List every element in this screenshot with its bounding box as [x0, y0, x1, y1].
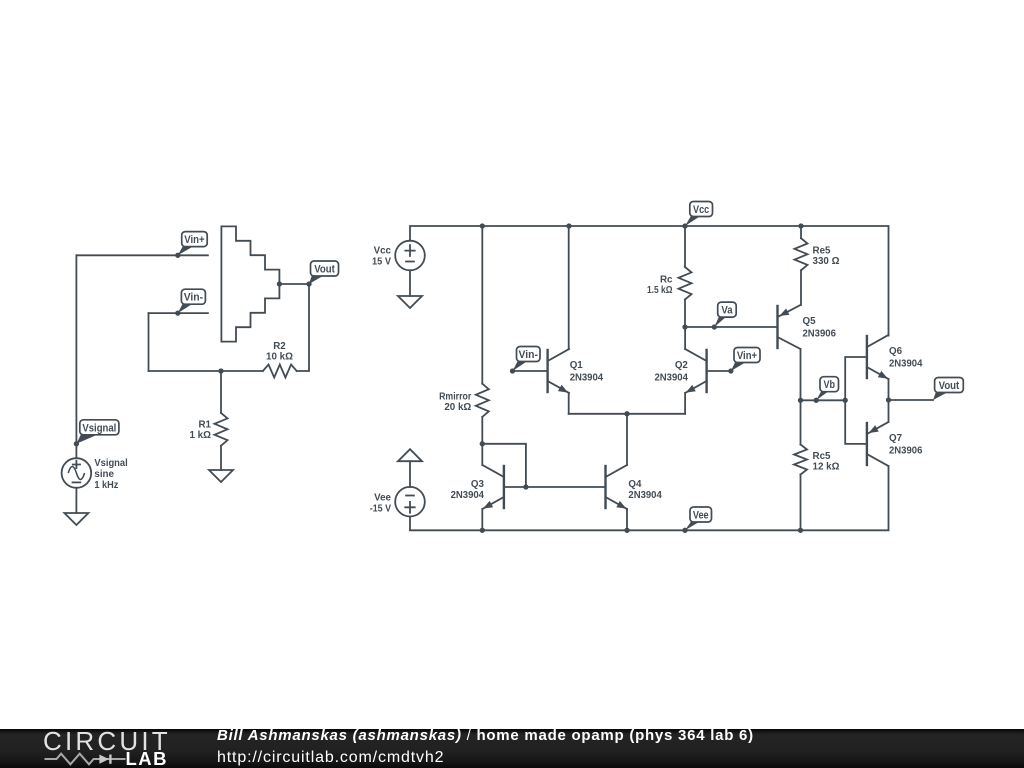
wire mirror diode link — [482, 444, 526, 487]
wire Vcc source to ground — [409, 270, 411, 296]
svg-text:20 kΩ: 20 kΩ — [444, 402, 471, 413]
svg-text:R2: R2 — [273, 341, 286, 352]
voltage source Vcc — [395, 241, 425, 271]
wire Va net — [685, 326, 778, 328]
svg-text:2N3906: 2N3906 — [803, 328, 837, 339]
svg-text:Q6: Q6 — [889, 346, 903, 357]
transistor Q3 — [503, 465, 505, 509]
svg-text:330 Ω: 330 Ω — [813, 256, 840, 267]
svg-text:1 kHz: 1 kHz — [94, 480, 118, 491]
node Vsignal tap — [74, 441, 79, 446]
node mirror base link — [523, 484, 528, 489]
flag Vb — [816, 377, 838, 401]
wire Re5 top — [800, 226, 802, 238]
wire Q2 base stub — [707, 370, 731, 372]
flag Vin- (right) — [513, 347, 541, 372]
wire Vsignal source bottom — [75, 488, 77, 513]
svg-text:Vout: Vout — [314, 264, 335, 276]
node mirror junction — [480, 441, 485, 446]
wire Rc top — [684, 226, 686, 267]
node top rail / Q1 collector — [566, 223, 571, 228]
wire Vin+ input net — [76, 254, 208, 256]
svg-text:2N3904: 2N3904 — [570, 372, 604, 383]
node tail current junction — [624, 411, 629, 416]
svg-text:Q5: Q5 — [803, 316, 817, 327]
svg-text:Q1: Q1 — [570, 360, 584, 371]
url line — [217, 749, 444, 767]
svg-text:1.5 kΩ: 1.5 kΩ — [647, 285, 673, 296]
flag Vin- — [178, 289, 206, 313]
wire R1 bottom — [220, 446, 222, 470]
footer bar — [0, 729, 1024, 768]
wire Q3-Q4 base net — [504, 486, 606, 488]
node Vee flag tap — [682, 528, 687, 533]
svg-text:R1: R1 — [198, 419, 211, 430]
svg-text:2N3906: 2N3906 — [889, 445, 923, 456]
transistor Q7 — [866, 422, 868, 466]
svg-text:sine: sine — [94, 469, 114, 480]
svg-text:Rc: Rc — [660, 274, 673, 285]
wire Vout net — [889, 399, 934, 401]
resistor Rmirror — [476, 384, 489, 417]
resistor Rc5 — [794, 445, 807, 475]
voltage source Vee — [395, 487, 425, 517]
node output junction — [886, 397, 891, 402]
svg-text:Va: Va — [721, 305, 733, 317]
resistor R1 — [215, 413, 228, 446]
svg-text:1 kΩ: 1 kΩ — [190, 430, 212, 441]
node Q3 emitter / rail — [480, 528, 485, 533]
ground below R1 — [209, 470, 233, 482]
node top rail / Rc / Vcc flag — [682, 223, 687, 228]
wire op-amp output — [279, 283, 309, 285]
svg-text:Vin+: Vin+ — [737, 350, 757, 362]
transistor Q5 — [776, 305, 778, 349]
svg-text:Q4: Q4 — [628, 479, 642, 490]
svg-text:Vin-: Vin- — [519, 349, 539, 361]
svg-text:Vee: Vee — [693, 510, 709, 522]
node Vin+ tap (right) — [728, 368, 733, 373]
wire Re5 bottom — [800, 270, 802, 305]
svg-text:12 kΩ: 12 kΩ — [813, 462, 840, 473]
wire feedback left vertical — [148, 313, 150, 371]
node Vin- tap (right) — [510, 368, 515, 373]
flag Vout — [309, 261, 339, 284]
resistor Rc — [679, 267, 692, 300]
transistor Q6 — [866, 335, 868, 379]
node Va tap — [712, 324, 717, 329]
svg-text:2N3904: 2N3904 — [889, 358, 923, 369]
node Rc5 / rail — [798, 528, 803, 533]
transistor Q1 — [546, 349, 548, 393]
svg-text:Re5: Re5 — [813, 245, 832, 256]
svg-text:2N3904: 2N3904 — [628, 490, 662, 501]
transistor Q4 — [604, 465, 606, 509]
svg-text:Vsignal: Vsignal — [94, 458, 128, 469]
svg-text:Vout: Vout — [939, 380, 960, 392]
node Q5 collector / Rc5 — [798, 398, 803, 403]
node R1/R2 junction — [218, 368, 223, 373]
wire Rmirror top — [481, 226, 483, 384]
ground below Vsignal — [64, 513, 88, 525]
flag Vee — [685, 507, 712, 530]
wire Vsignal source top — [75, 444, 77, 458]
svg-text:Q2: Q2 — [675, 360, 689, 371]
svg-text:Vin+: Vin+ — [184, 234, 204, 246]
svg-text:Vin-: Vin- — [184, 292, 204, 304]
wire Rc bottom — [684, 300, 686, 328]
wire Rc5 top — [800, 400, 802, 444]
wire common emitter net — [569, 413, 685, 415]
node Vb tap — [814, 398, 819, 403]
svg-text:10 kΩ: 10 kΩ — [266, 352, 293, 363]
wire Vb net — [801, 399, 846, 401]
node top rail / Rmirror — [480, 223, 485, 228]
svg-text:Rmirror: Rmirror — [439, 391, 471, 402]
resistor Re5 — [795, 238, 808, 270]
node Va junction — [682, 324, 687, 329]
wire R1 top — [220, 371, 222, 413]
wire Vee ground stub — [409, 461, 411, 487]
svg-text:2N3904: 2N3904 — [451, 490, 485, 501]
node Vb / base link — [843, 398, 848, 403]
ground arrow above Vee — [398, 449, 422, 461]
voltage source Vsignal — [62, 458, 92, 488]
resistor R2 — [263, 365, 297, 378]
credit line — [217, 728, 754, 744]
flag Vsignal — [76, 420, 119, 444]
svg-text:Q7: Q7 — [889, 433, 903, 444]
wire Vcc top rail — [410, 226, 889, 336]
wire Rmirror bottom — [481, 417, 483, 444]
flag Va — [714, 302, 736, 327]
node Q4 emitter / rail — [624, 528, 629, 533]
svg-text:Vb: Vb — [824, 379, 836, 391]
svg-text:-15 V: -15 V — [370, 504, 392, 515]
wire left vertical (Vsignal to Vin+) — [75, 255, 77, 443]
wire Rc5 bottom — [800, 475, 802, 531]
wire R2 to Vout vertical — [297, 284, 309, 371]
svg-text:Vee: Vee — [374, 493, 391, 504]
transistor Q2 — [705, 349, 707, 393]
wire feedback bottom net — [149, 370, 263, 372]
svg-text:Vcc: Vcc — [374, 246, 392, 257]
node Vin- tap — [175, 310, 180, 315]
flag Vin+ (right) — [731, 348, 760, 372]
node op-amp output — [277, 281, 282, 286]
node Vin+ tap — [175, 253, 180, 258]
flag Vout (right) — [933, 378, 963, 401]
svg-text:Rc5: Rc5 — [813, 451, 832, 462]
svg-text:Vsignal: Vsignal — [82, 422, 116, 434]
wire Q1 base stub — [513, 370, 548, 372]
wire Vin- input net — [149, 312, 208, 314]
CircuitLab logo — [0, 729, 180, 768]
svg-text:2N3904: 2N3904 — [655, 372, 689, 383]
svg-text:Q3: Q3 — [471, 479, 485, 490]
wire Q6-Q7 base link — [845, 357, 867, 444]
flag Vcc — [685, 202, 713, 227]
flag Vin+ — [178, 232, 207, 256]
ground below Vcc — [398, 296, 422, 308]
op-amp X1 (homemade opamp staircase symbol) — [221, 226, 279, 341]
wire Vee bottom rail — [410, 466, 889, 530]
svg-text:15 V: 15 V — [372, 256, 391, 267]
node top rail / Re5 — [798, 223, 803, 228]
node Vout tap — [306, 281, 311, 286]
svg-text:LAB: LAB — [126, 748, 169, 768]
svg-text:Vcc: Vcc — [693, 204, 709, 216]
